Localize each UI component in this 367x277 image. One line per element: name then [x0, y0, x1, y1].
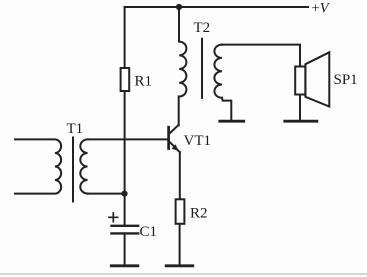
- svg-text:T2: T2: [194, 20, 211, 36]
- capacitor C1: [112, 226, 139, 234]
- wire VT1 collector up to T2 primary: [178, 96, 180, 125]
- wire R1 bottom down to bias node (crosses base wire, no join): [124, 91, 126, 194]
- resistor R2: [176, 199, 185, 224]
- transformer T2 secondary winding: [214, 45, 222, 98]
- node bias junction dot: [121, 191, 127, 197]
- wire R2 bottom to ground: [179, 224, 181, 265]
- svg-text:VT1: VT1: [184, 133, 212, 149]
- border artifact line at bottom: [0, 273, 367, 275]
- ground under speaker: [285, 120, 317, 123]
- wire bias node down to C1: [124, 194, 126, 225]
- wire T1 secondary bottom to bias node: [88, 193, 125, 195]
- speaker SP1 driver box: [295, 67, 305, 95]
- wire T2 secondary bottom to ground: [222, 98, 231, 120]
- svg-text:+V: +V: [312, 1, 331, 17]
- wire C1 bottom to ground: [124, 233, 126, 265]
- transformer T1 secondary winding: [80, 139, 87, 193]
- wire base lead from T1 secondary to VT1 base: [88, 138, 168, 140]
- transformer T2 core: [201, 39, 203, 98]
- svg-text:SP1: SP1: [334, 72, 358, 88]
- transistor VT1 base bar: [167, 127, 170, 148]
- wire T2 secondary top to speaker: [222, 45, 300, 67]
- transformer T1 primary winding: [15, 139, 61, 193]
- transistor VT1 emitter diagonal with arrow: [170, 142, 180, 152]
- transformer T1 core: [72, 138, 74, 202]
- ground under T2 secondary: [220, 120, 244, 123]
- wire speaker bottom to ground: [299, 95, 301, 121]
- speaker SP1 cone: [305, 52, 329, 106]
- node supply junction dot: [176, 4, 182, 10]
- wire R1 branch from rail to R1 top: [124, 7, 126, 68]
- wire top supply rail: [125, 6, 308, 8]
- svg-text:C1: C1: [140, 224, 158, 240]
- svg-text:R2: R2: [190, 206, 208, 222]
- svg-text:R1: R1: [135, 74, 153, 90]
- svg-text:T1: T1: [67, 121, 84, 137]
- label C1 polarity plus: [109, 213, 118, 222]
- resistor R1: [121, 68, 130, 91]
- ground under R2: [166, 264, 193, 267]
- wire supply dot down to T2 primary top: [178, 7, 180, 42]
- ground under C1: [111, 264, 138, 267]
- wire VT1 emitter down to R2: [179, 152, 181, 199]
- transformer T2 primary winding: [179, 42, 186, 97]
- transistor VT1 collector diagonal: [170, 125, 179, 133]
